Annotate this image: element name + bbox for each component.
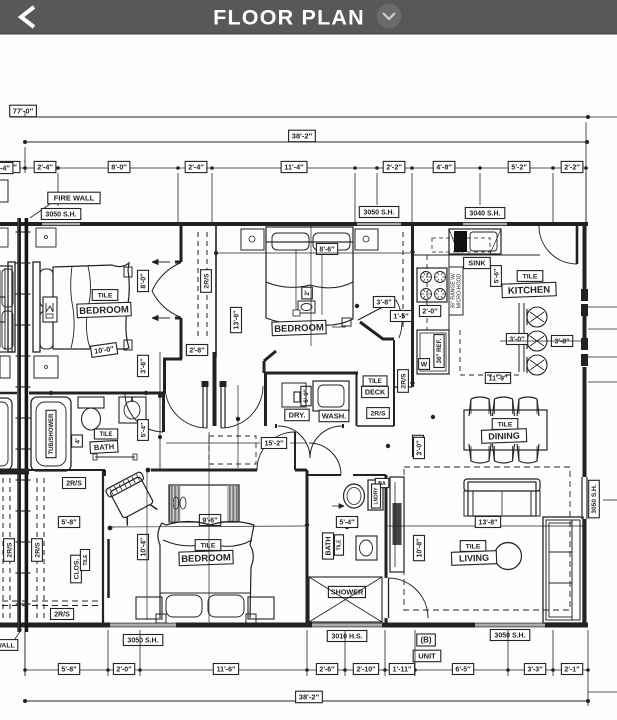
svg-text:3050 S.H.: 3050 S.H. [363, 209, 394, 216]
svg-text:TUB/SHOWER: TUB/SHOWER [49, 413, 55, 455]
svg-text:TILE: TILE [98, 292, 113, 299]
svg-text:TILE: TILE [83, 554, 89, 566]
svg-text:TILE: TILE [498, 421, 513, 428]
svg-text:2'-6″: 2'-6″ [319, 666, 335, 673]
svg-text:1'-11″: 1'-11″ [393, 666, 412, 673]
svg-text:10'-4″: 10'-4″ [140, 537, 147, 557]
svg-text:3050 S.H.: 3050 S.H. [45, 211, 76, 218]
svg-text:TILE: TILE [100, 432, 113, 438]
svg-text:2'-0″: 2'-0″ [422, 308, 438, 315]
svg-text:3'-8″: 3'-8″ [554, 338, 570, 345]
svg-text:5'-8″: 5'-8″ [61, 666, 77, 673]
svg-text:3'-0″: 3'-0″ [509, 336, 525, 343]
svg-text:2'-4″: 2'-4″ [188, 162, 204, 171]
svg-text:TILE: TILE [368, 378, 381, 385]
svg-text:2R/S: 2R/S [34, 542, 41, 558]
svg-text:2': 2' [304, 290, 311, 296]
svg-text:6'-5″: 6'-5″ [455, 666, 471, 673]
svg-text:4': 4' [74, 438, 81, 444]
svg-text:BEDROOM: BEDROOM [274, 322, 324, 335]
svg-text:2'-0″: 2'-0″ [116, 666, 132, 673]
svg-text:15'-2″: 15'-2″ [264, 440, 284, 447]
svg-text:3'-0″: 3'-0″ [416, 440, 423, 456]
svg-text:CLOS.: CLOS. [73, 559, 80, 580]
svg-text:11'-6″: 11'-6″ [217, 666, 236, 673]
svg-text:5'-6″: 5'-6″ [493, 268, 500, 283]
svg-text:W: W [421, 361, 428, 368]
svg-text:10'-8″: 10'-8″ [416, 538, 423, 558]
svg-text:3'-8″: 3'-8″ [376, 299, 392, 306]
svg-text:UNIT: UNIT [418, 652, 436, 661]
svg-text:2'-4″: 2'-4″ [37, 162, 53, 171]
svg-text:13'-6″: 13'-6″ [233, 310, 240, 330]
svg-text:(B): (B) [420, 636, 431, 645]
svg-text:1'-5″: 1'-5″ [393, 313, 409, 320]
svg-text:2'-4″: 2'-4″ [0, 163, 10, 172]
svg-text:TILE: TILE [466, 543, 481, 550]
svg-text:DINING: DINING [488, 431, 520, 442]
svg-text:5'-8″: 5'-8″ [61, 519, 77, 526]
svg-text:BEDROOM: BEDROOM [79, 304, 129, 317]
svg-text:4'-8″: 4'-8″ [436, 162, 452, 171]
svg-text:3050 S.H.: 3050 S.H. [494, 632, 525, 639]
svg-text:2'-1″: 2'-1″ [564, 666, 580, 673]
svg-text:2R/S: 2R/S [66, 480, 82, 487]
svg-text:3040 S.H.: 3040 S.H. [469, 210, 500, 217]
svg-text:13'-8″: 13'-8″ [478, 519, 498, 526]
svg-text:BEDROOM: BEDROOM [181, 552, 231, 565]
svg-text:BATH: BATH [325, 537, 332, 556]
svg-text:LNDRY: LNDRY [374, 487, 380, 505]
svg-text:8'-0″: 8'-0″ [140, 273, 147, 289]
svg-text:11'-9″: 11'-9″ [489, 375, 508, 382]
svg-text:2'-10″: 2'-10″ [356, 666, 376, 673]
svg-text:5'-4″: 5'-4″ [140, 422, 147, 437]
svg-text:DRY.: DRY. [289, 411, 306, 420]
svg-text:5'-4″: 5'-4″ [339, 519, 355, 526]
svg-text:SINK: SINK [468, 258, 486, 267]
svg-text:11'-4″: 11'-4″ [284, 162, 304, 171]
svg-text:TILE: TILE [337, 539, 343, 550]
svg-text:3050 S.H.: 3050 S.H. [127, 637, 158, 644]
svg-text:38'-2″: 38'-2″ [292, 132, 313, 141]
svg-text:KITCHEN: KITCHEN [508, 284, 551, 296]
svg-text:MICRO-HOOD: MICRO-HOOD [457, 273, 463, 308]
svg-text:LIVING: LIVING [459, 553, 489, 564]
svg-text:2R/S: 2R/S [6, 542, 13, 558]
svg-text:FLOOR PLAN: FLOOR PLAN [213, 6, 365, 30]
svg-text:2R/S: 2R/S [370, 410, 386, 417]
svg-text:2'-2″: 2'-2″ [564, 162, 580, 171]
svg-text:6'-0″: 6'-0″ [303, 389, 310, 402]
svg-text:SHOWER: SHOWER [331, 587, 364, 596]
svg-text:FIRE WALL: FIRE WALL [54, 194, 95, 203]
svg-text:5'-2″: 5'-2″ [511, 162, 527, 171]
svg-text:BATH: BATH [94, 442, 115, 452]
svg-text:77'-0″: 77'-0″ [13, 107, 34, 116]
svg-text:36″ REF.: 36″ REF. [436, 338, 443, 363]
svg-text:TILE: TILE [201, 542, 216, 549]
svg-text:3010 H.S.: 3010 H.S. [331, 633, 362, 640]
svg-text:3050 S.H.: 3050 S.H. [591, 484, 598, 513]
svg-text:8'-6″: 8'-6″ [319, 246, 335, 253]
svg-text:2R/S: 2R/S [203, 273, 210, 289]
svg-text:2'-8″: 2'-8″ [189, 347, 205, 354]
svg-text:WALL: WALL [0, 642, 15, 649]
svg-text:2'-2″: 2'-2″ [386, 162, 402, 171]
svg-text:2R/S: 2R/S [54, 611, 70, 618]
svg-text:8'-0″: 8'-0″ [111, 162, 127, 171]
svg-text:3'-3″: 3'-3″ [527, 666, 543, 673]
svg-text:38'-2″: 38'-2″ [299, 693, 320, 702]
svg-text:3'-6″: 3'-6″ [140, 358, 147, 374]
svg-text:WASH.: WASH. [322, 412, 347, 421]
svg-text:DECK: DECK [365, 387, 386, 396]
svg-text:2R/S: 2R/S [400, 373, 407, 389]
svg-text:TILE: TILE [523, 273, 538, 280]
